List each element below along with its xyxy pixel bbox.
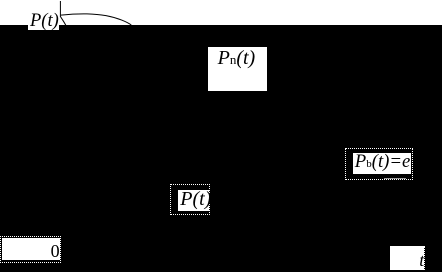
curve Pn(t) top	[61, 14, 132, 25]
y-axis	[59, 1, 61, 17]
Pb(t)=e selected textbox dotted border	[345, 148, 413, 180]
0 selected textbox dotted border	[0, 236, 61, 263]
P(t) axis label text	[30, 12, 59, 31]
grey marks under Pb box	[384, 178, 406, 179]
0 white box	[2, 238, 60, 261]
white top strip	[0, 0, 442, 25]
t box dotted right edge	[424, 246, 425, 270]
Pb(t)=e text	[355, 153, 410, 172]
t box dotted bottom edge	[390, 269, 425, 270]
t text	[419, 251, 424, 269]
P(t) axis label box	[28, 0, 59, 30]
t axis label box	[390, 246, 424, 270]
axis and curves	[0, 0, 442, 26]
curve P(t) steep	[61, 17, 66, 26]
0 text	[51, 242, 60, 260]
Pn(t) label text	[218, 48, 256, 68]
P(t) white box	[178, 190, 209, 211]
P(t) mid text	[180, 189, 211, 209]
Pb(t)=e white box	[353, 153, 411, 174]
Pn(t) label box	[208, 47, 267, 91]
P(t) selected textbox dotted border	[170, 184, 210, 215]
